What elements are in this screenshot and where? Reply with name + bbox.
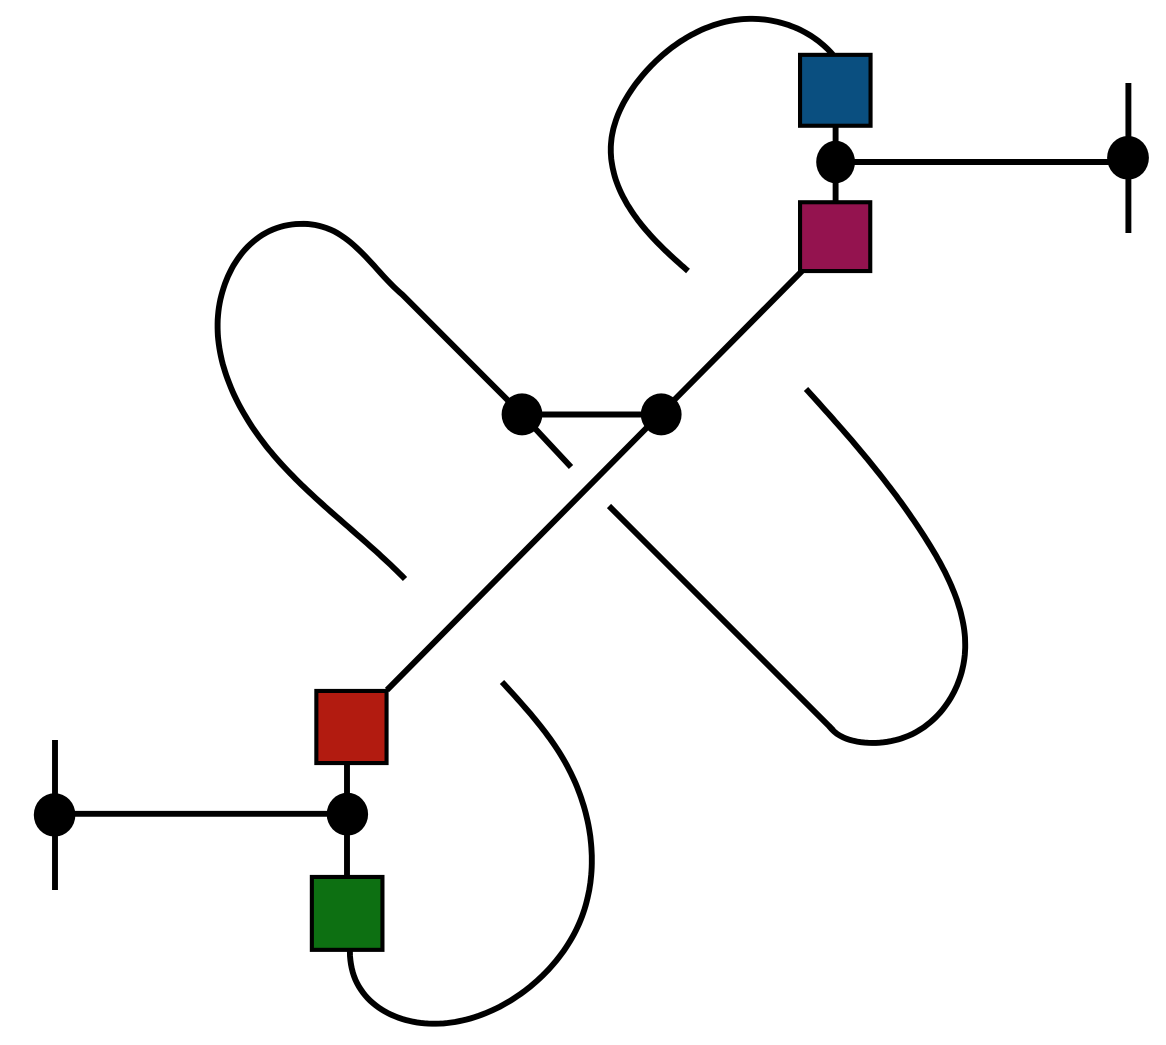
node: dot A below blue square xyxy=(816,141,855,183)
blue square node xyxy=(800,55,871,126)
magenta square node xyxy=(800,202,870,271)
node: dot D middle right xyxy=(641,393,682,435)
wire: horizontal from left terminal dot F to dot E xyxy=(55,811,348,817)
wire: horizontal connector between dots C and D xyxy=(522,412,661,418)
wire: right terminal vertical line xyxy=(1125,83,1131,233)
wire: strand resuming after under-crossing, down-right into big right U-loop, back up to break xyxy=(609,389,965,743)
wire: connector red square through dot E to green square xyxy=(344,763,350,877)
node: dot C middle left xyxy=(502,393,543,435)
wire: fishhook loop from green square bottom around to under-crossing break tip xyxy=(350,682,592,1024)
wire: butt-end notch of diagonal at U-loop join xyxy=(829,726,833,730)
wire: horizontal from dot A to right terminal dot B xyxy=(836,159,1128,165)
wire: left terminal vertical line xyxy=(52,740,58,890)
wire: connector dot A to magenta square xyxy=(833,162,839,202)
wire: connector blue square to dot A xyxy=(833,125,839,162)
node: left terminal dot F xyxy=(34,793,76,836)
node: dot E below red square xyxy=(327,793,368,836)
node: right terminal dot B xyxy=(1107,136,1149,180)
wire: short stub from dot C down-right to under-crossing break xyxy=(522,415,571,468)
red square node xyxy=(316,691,386,763)
wire: top hook curve from blue square top looping left, ends at under-crossing break xyxy=(611,19,840,271)
green square node xyxy=(312,877,383,950)
wire: diagonal from dot C up-left joining left hairpin loop, ends at under-crossing break xyxy=(218,224,522,579)
wire: long over-strand diagonal from magenta square corner to red square corner xyxy=(387,271,802,690)
